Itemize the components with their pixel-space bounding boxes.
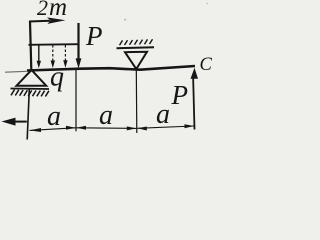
pin support A (triangle) (17, 70, 47, 86)
svg-text:2m: 2m (37, 0, 67, 21)
force 2m arrow (29, 20, 50, 23)
middle support ceiling line (117, 47, 155, 48)
force P (down) at end of load (76, 23, 82, 68)
svg-text:a: a (99, 100, 113, 131)
svg-text:a: a (156, 99, 170, 130)
dimension line segment 3 (137, 124, 194, 130)
horizontal arrow at left (reaction) (2, 118, 27, 126)
paper speck (206, 3, 208, 5)
support hatching (11, 90, 49, 97)
distributed load q top line (29, 43, 79, 46)
distributed load arrow 1 (37, 45, 41, 68)
paper speck (124, 19, 126, 21)
force P (up) at C (191, 68, 199, 130)
beam AC (27, 66, 195, 71)
extension line under load end (75, 70, 77, 132)
svg-text:a: a (47, 101, 61, 132)
dimension line segment 2 (77, 126, 137, 131)
distributed load arrow 3 (dashed) (63, 45, 67, 68)
distributed load arrow 2 (dashed) (51, 45, 55, 68)
extension line under middle support (135, 70, 138, 133)
svg-text:q: q (50, 62, 64, 93)
svg-text:P: P (171, 80, 189, 110)
post (column on support) (30, 21, 31, 70)
middle support triangle (inverted) (125, 52, 147, 69)
svg-text:P: P (85, 21, 103, 51)
dimension line segment 1 (30, 126, 76, 132)
svg-text:C: C (200, 55, 213, 75)
support ground line (11, 88, 50, 91)
faint beam smudge left of support (5, 70, 27, 73)
middle support hatching (120, 39, 153, 45)
support centerline extension (27, 89, 29, 140)
